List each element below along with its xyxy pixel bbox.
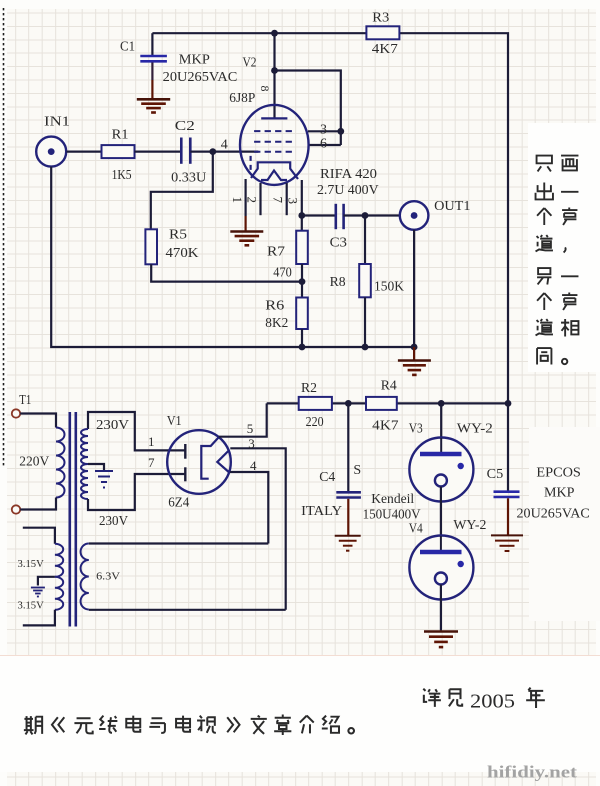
svg-text:Kendeil: Kendeil — [371, 492, 414, 507]
transformer 3.15V winding lower — [55, 577, 63, 610]
resistor R2 — [299, 397, 332, 410]
svg-text:220: 220 — [306, 415, 324, 430]
label C2 — [175, 119, 195, 134]
label WY-2 (V3 type) — [457, 422, 493, 437]
resistor R7 — [296, 231, 308, 264]
label pin 5 of V1 — [247, 421, 254, 436]
svg-text:hifidiy.net: hifidiy.net — [487, 763, 578, 782]
V2 heater — [261, 171, 287, 181]
V1 plate bracket — [201, 437, 218, 478]
svg-text:R4: R4 — [381, 379, 397, 394]
svg-text:1: 1 — [230, 197, 245, 204]
label 6Z4 (V1 type) — [168, 496, 189, 511]
ground 3.15V center tap (navy) — [31, 588, 45, 597]
transformer T1 primary winding 220V — [56, 428, 65, 498]
node cathode junction — [298, 212, 305, 219]
label V2 — [243, 55, 257, 70]
wire V1 pin 4 to 6.3V top — [230, 472, 268, 544]
label pin 8 (rotated, top cap) — [258, 86, 272, 92]
label pin 3 (rotated) — [286, 198, 301, 205]
label S — [353, 463, 361, 478]
wire 6.3V top — [89, 542, 268, 544]
wire primary bottom to mains bottom — [20, 498, 56, 510]
label 3.15V upper — [18, 559, 45, 570]
svg-text:R5: R5 — [169, 228, 187, 243]
svg-text:1: 1 — [148, 434, 155, 449]
label R1 — [112, 128, 129, 143]
label pin 6 of V2 — [320, 136, 327, 151]
label ITALY — [301, 504, 342, 519]
tube V1 envelope — [167, 430, 231, 494]
wire: B+ top rail from C1 to R3 to right riser — [152, 33, 508, 403]
label 230V upper — [96, 418, 129, 433]
svg-text:R6: R6 — [265, 299, 284, 314]
label IN1 — [44, 115, 70, 130]
svg-text:3: 3 — [248, 436, 255, 451]
node: grid node — [209, 148, 216, 155]
ground below C1 — [137, 99, 170, 112]
svg-text:20U265VAC: 20U265VAC — [163, 70, 238, 85]
label pin 1 of V1 — [148, 434, 155, 449]
wire rail to C5 — [507, 403, 509, 490]
label 220 (R2 value) — [306, 415, 324, 430]
label 1K5 (R1 value) — [112, 168, 132, 183]
V1 heater bars — [184, 444, 186, 481]
V2 grid dashes row 2 — [254, 141, 296, 143]
wire HT bottom to V1 pin7 — [88, 474, 185, 510]
V2 plate bar — [261, 117, 287, 119]
V2 grid stem dashed (pin2) — [250, 156, 252, 170]
label C5 — [487, 467, 504, 482]
wire C3 to OUT1 — [344, 214, 400, 216]
svg-text:3: 3 — [286, 198, 301, 205]
transformer core — [70, 412, 76, 627]
svg-text:R2: R2 — [301, 381, 317, 396]
transformer 6.3V winding — [81, 544, 89, 610]
tube V4 (WY-2) — [409, 536, 473, 600]
svg-text:3.15V: 3.15V — [18, 601, 45, 612]
svg-text:6.3V: 6.3V — [96, 571, 120, 582]
wire pin 6 (screen) — [309, 144, 341, 146]
wire pin 7 of V2 (stub) — [286, 183, 288, 215]
svg-text:C1: C1 — [120, 39, 135, 54]
node output junction — [362, 212, 369, 219]
wire R6 to ground bus — [301, 329, 303, 347]
wire mains top to primary — [20, 414, 56, 428]
svg-text:150U400V: 150U400V — [363, 507, 421, 522]
label pin 3 of V1 — [248, 436, 255, 451]
transformer HT winding 230V lower — [81, 464, 88, 499]
svg-text:WY-2: WY-2 — [457, 422, 493, 437]
wire stub bus to ground — [413, 347, 415, 360]
node R7/R6/R5 — [299, 278, 306, 285]
svg-text:RIFA 420: RIFA 420 — [320, 167, 377, 182]
label C3 — [330, 235, 347, 250]
note: caption 详见2005年 — [423, 688, 545, 713]
label R7 — [267, 244, 285, 259]
resistor R1 — [102, 145, 135, 158]
svg-text:470: 470 — [273, 265, 292, 280]
svg-text:4: 4 — [221, 138, 228, 153]
label R4 — [381, 379, 397, 394]
node R8 to bus — [362, 344, 369, 351]
label 6.3V — [96, 571, 120, 582]
wire 3.15V bottom stub — [23, 610, 55, 626]
svg-text:7: 7 — [148, 455, 155, 470]
svg-text:220V: 220V — [19, 454, 49, 469]
svg-text:OUT1: OUT1 — [434, 199, 470, 214]
tube V3 (WY-2) — [409, 438, 473, 502]
note: right vertical text 只画出一个声道，另一个声道相同。 — [536, 156, 579, 365]
wire V3 to V4 — [440, 487, 442, 553]
label pin 4 of V2 — [221, 138, 228, 153]
capacitor C4 — [336, 492, 361, 535]
label OUT1 — [434, 199, 470, 214]
label R5 — [169, 228, 187, 243]
V2 grid dashes row 3 — [254, 151, 296, 153]
wire: plate riser and screen tie (V2 top) — [275, 33, 341, 145]
label Kendeil — [371, 492, 414, 507]
connector OUT1 — [400, 201, 429, 230]
svg-text:6: 6 — [320, 136, 327, 151]
label R8 — [330, 275, 346, 290]
node bus end at OUT1 ground — [411, 344, 418, 351]
ground below OUT1 — [398, 361, 431, 375]
label 470 (R7 value) — [273, 265, 292, 280]
resistor R4 — [366, 397, 397, 410]
svg-text:T1: T1 — [19, 393, 31, 408]
tube V2 envelope — [240, 105, 309, 185]
wire pin 2 of V2 (stub) — [259, 183, 261, 215]
svg-text:6Z4: 6Z4 — [168, 496, 189, 511]
resistor R6 — [296, 298, 308, 330]
node on B+ rail at plate riser — [271, 30, 278, 37]
capacitor C1 — [140, 33, 167, 98]
label C4 — [319, 470, 335, 485]
capacitor C3 — [336, 204, 344, 229]
label 2.7U 400V (C3 value) — [317, 183, 379, 198]
svg-text:3.15V: 3.15V — [18, 559, 45, 570]
svg-text:R1: R1 — [112, 128, 129, 143]
label 20U265VAC (C5 value) — [517, 506, 590, 521]
svg-text:3: 3 — [320, 122, 327, 137]
label pin 3 of V2 — [320, 122, 327, 137]
terminal: mains top — [12, 409, 20, 417]
ground below C5 — [491, 535, 523, 551]
transformer 3.15V winding upper — [55, 544, 63, 577]
svg-text:C4: C4 — [319, 470, 335, 485]
label R3 — [372, 11, 389, 26]
label pin 7 of V1 — [148, 455, 155, 470]
svg-text:150K: 150K — [374, 280, 404, 295]
label T1 — [19, 393, 31, 408]
svg-text:2.7U 400V: 2.7U 400V — [317, 183, 379, 198]
svg-text:C5: C5 — [487, 467, 504, 482]
capacitor C2 — [181, 138, 190, 164]
wire R8 to ground bus — [364, 297, 366, 347]
capacitor C5 — [494, 492, 520, 535]
wire PSU rail — [267, 402, 508, 404]
label RIFA 420 — [320, 167, 377, 182]
label 4K7 (R4 value) — [372, 418, 398, 433]
wire rail to C4 — [347, 403, 349, 491]
label C1 — [120, 39, 135, 54]
watermark hifidiy.net — [487, 763, 578, 782]
svg-text:S: S — [353, 463, 361, 478]
node C4 branch — [345, 400, 352, 407]
svg-text:R8: R8 — [330, 275, 346, 290]
label V4 — [409, 521, 423, 536]
white box behind right vertical note — [528, 123, 600, 372]
note: caption 期《无线电与电视》文章介绍。 — [24, 715, 354, 735]
svg-text:6J8P: 6J8P — [229, 91, 255, 106]
svg-text:1K5: 1K5 — [112, 168, 132, 183]
wire: R5 bottom to cathode divider node — [151, 264, 302, 281]
wire V4 to ground — [440, 585, 442, 631]
svg-text:EPCOS: EPCOS — [536, 466, 581, 481]
transformer HT winding 230V upper — [81, 429, 88, 464]
ground HT center tap (navy) — [95, 471, 113, 488]
svg-text:230V: 230V — [96, 418, 129, 433]
svg-text:WY-2: WY-2 — [453, 518, 486, 533]
wire 6.3V bottom — [89, 609, 286, 611]
wire V1 pin 5 up to PSU rail — [219, 403, 267, 436]
wire HT secondary top to V1 pin1 — [88, 412, 185, 450]
wire C2 to grid node to tube — [190, 151, 258, 153]
svg-text:IN1: IN1 — [44, 115, 70, 130]
label R2 — [301, 381, 317, 396]
label 4K7 (R3 value) — [372, 42, 398, 57]
svg-text:8K2: 8K2 — [265, 316, 288, 331]
svg-text:R7: R7 — [267, 244, 285, 259]
svg-text:2005: 2005 — [470, 691, 515, 713]
svg-text:R3: R3 — [372, 11, 389, 26]
svg-text:V2: V2 — [243, 55, 257, 70]
V1 cathode chevron — [217, 450, 229, 473]
white box bottom caption area — [0, 655, 600, 772]
left margin dotted line — [3, 8, 5, 468]
wire: ground bus — [51, 167, 414, 347]
wire node to R8 — [364, 216, 366, 265]
svg-text:C3: C3 — [330, 235, 347, 250]
svg-text:MKP: MKP — [544, 486, 575, 501]
label 150K (R8 value) — [374, 280, 404, 295]
label MKP (C5) — [544, 486, 575, 501]
label 0.33U (C2 value) — [171, 170, 206, 185]
terminal: mains bottom — [12, 505, 20, 513]
ground below V4 — [424, 632, 458, 648]
label pin 7 (rotated) — [271, 197, 286, 204]
svg-text:5: 5 — [247, 421, 254, 436]
svg-text:7: 7 — [271, 197, 286, 204]
svg-text:230V: 230V — [99, 514, 128, 529]
wire rail to V3 — [440, 403, 442, 453]
label 6J8P (V2 type) — [229, 91, 255, 106]
wire OUT1 down to bus — [413, 230, 415, 347]
label 20U265VAC (C1 value) — [163, 70, 238, 85]
resistor R8 — [359, 264, 371, 297]
svg-text:4: 4 — [250, 458, 257, 473]
wire HT center tap — [88, 464, 104, 470]
connector IN1 — [36, 137, 66, 167]
node screen tie to pin 3 line — [337, 128, 344, 135]
label WY-2 (V4 type) — [453, 518, 486, 533]
wire R1 to C2 — [135, 151, 181, 153]
label 470K (R5 value) — [166, 246, 199, 261]
node at screen branch — [271, 67, 278, 74]
svg-text:8: 8 — [258, 86, 272, 92]
svg-text:4K7: 4K7 — [372, 42, 398, 57]
svg-text:ITALY: ITALY — [301, 504, 342, 519]
label pin 1 (rotated) — [230, 197, 245, 204]
wire pin 3 cathode of V2 down to R7 — [301, 180, 303, 231]
svg-text:V3: V3 — [409, 422, 423, 437]
svg-text:20U265VAC: 20U265VAC — [517, 506, 590, 521]
svg-text:0.33U: 0.33U — [171, 170, 206, 185]
label 150U400V (C4 value) — [363, 507, 421, 522]
V2 grid dashes row 1 — [254, 130, 296, 132]
wire 3.15V center tap — [38, 577, 55, 586]
wire: grid node down-left to R5 — [151, 152, 213, 230]
wire R7 to R6 — [301, 264, 303, 298]
V2 cathode bracket — [251, 162, 298, 179]
svg-text:V1: V1 — [167, 414, 182, 429]
wire pin 3 (screen) — [308, 130, 341, 132]
node R6 to bus — [299, 344, 306, 351]
node V3 branch — [438, 400, 445, 407]
resistor R5 — [145, 229, 157, 264]
ground below C4 — [335, 536, 361, 551]
wire V1 pin 3 to heater return — [230, 448, 285, 610]
svg-text:C2: C2 — [175, 119, 195, 134]
label MKP — [179, 53, 210, 68]
label 220V — [19, 454, 49, 469]
label 230V lower — [99, 514, 128, 529]
label EPCOS — [536, 466, 581, 481]
resistor R3 — [366, 26, 399, 39]
label pin 4 of V1 — [250, 458, 257, 473]
svg-text:2: 2 — [245, 197, 260, 204]
label V1 — [167, 414, 182, 429]
svg-text:MKP: MKP — [179, 53, 210, 68]
wire pin 1 of V2 to ground — [245, 179, 247, 231]
label V3 — [409, 422, 423, 437]
svg-text:V4: V4 — [409, 521, 423, 536]
node C5 branch — [505, 400, 512, 407]
label pin 2 (rotated) — [245, 197, 260, 204]
ground below V2 pin1 — [230, 232, 263, 246]
label 3.15V lower — [18, 601, 45, 612]
label R6 — [265, 299, 284, 314]
wire cathode to C3 — [302, 214, 336, 216]
wire 3.15V top stub — [23, 528, 55, 544]
label 8K2 (R6 value) — [265, 316, 288, 331]
svg-text:4K7: 4K7 — [372, 418, 398, 433]
wire IN1 to R1 — [67, 151, 102, 153]
white box behind EPCOS labels — [529, 427, 600, 621]
svg-text:470K: 470K — [166, 246, 199, 261]
